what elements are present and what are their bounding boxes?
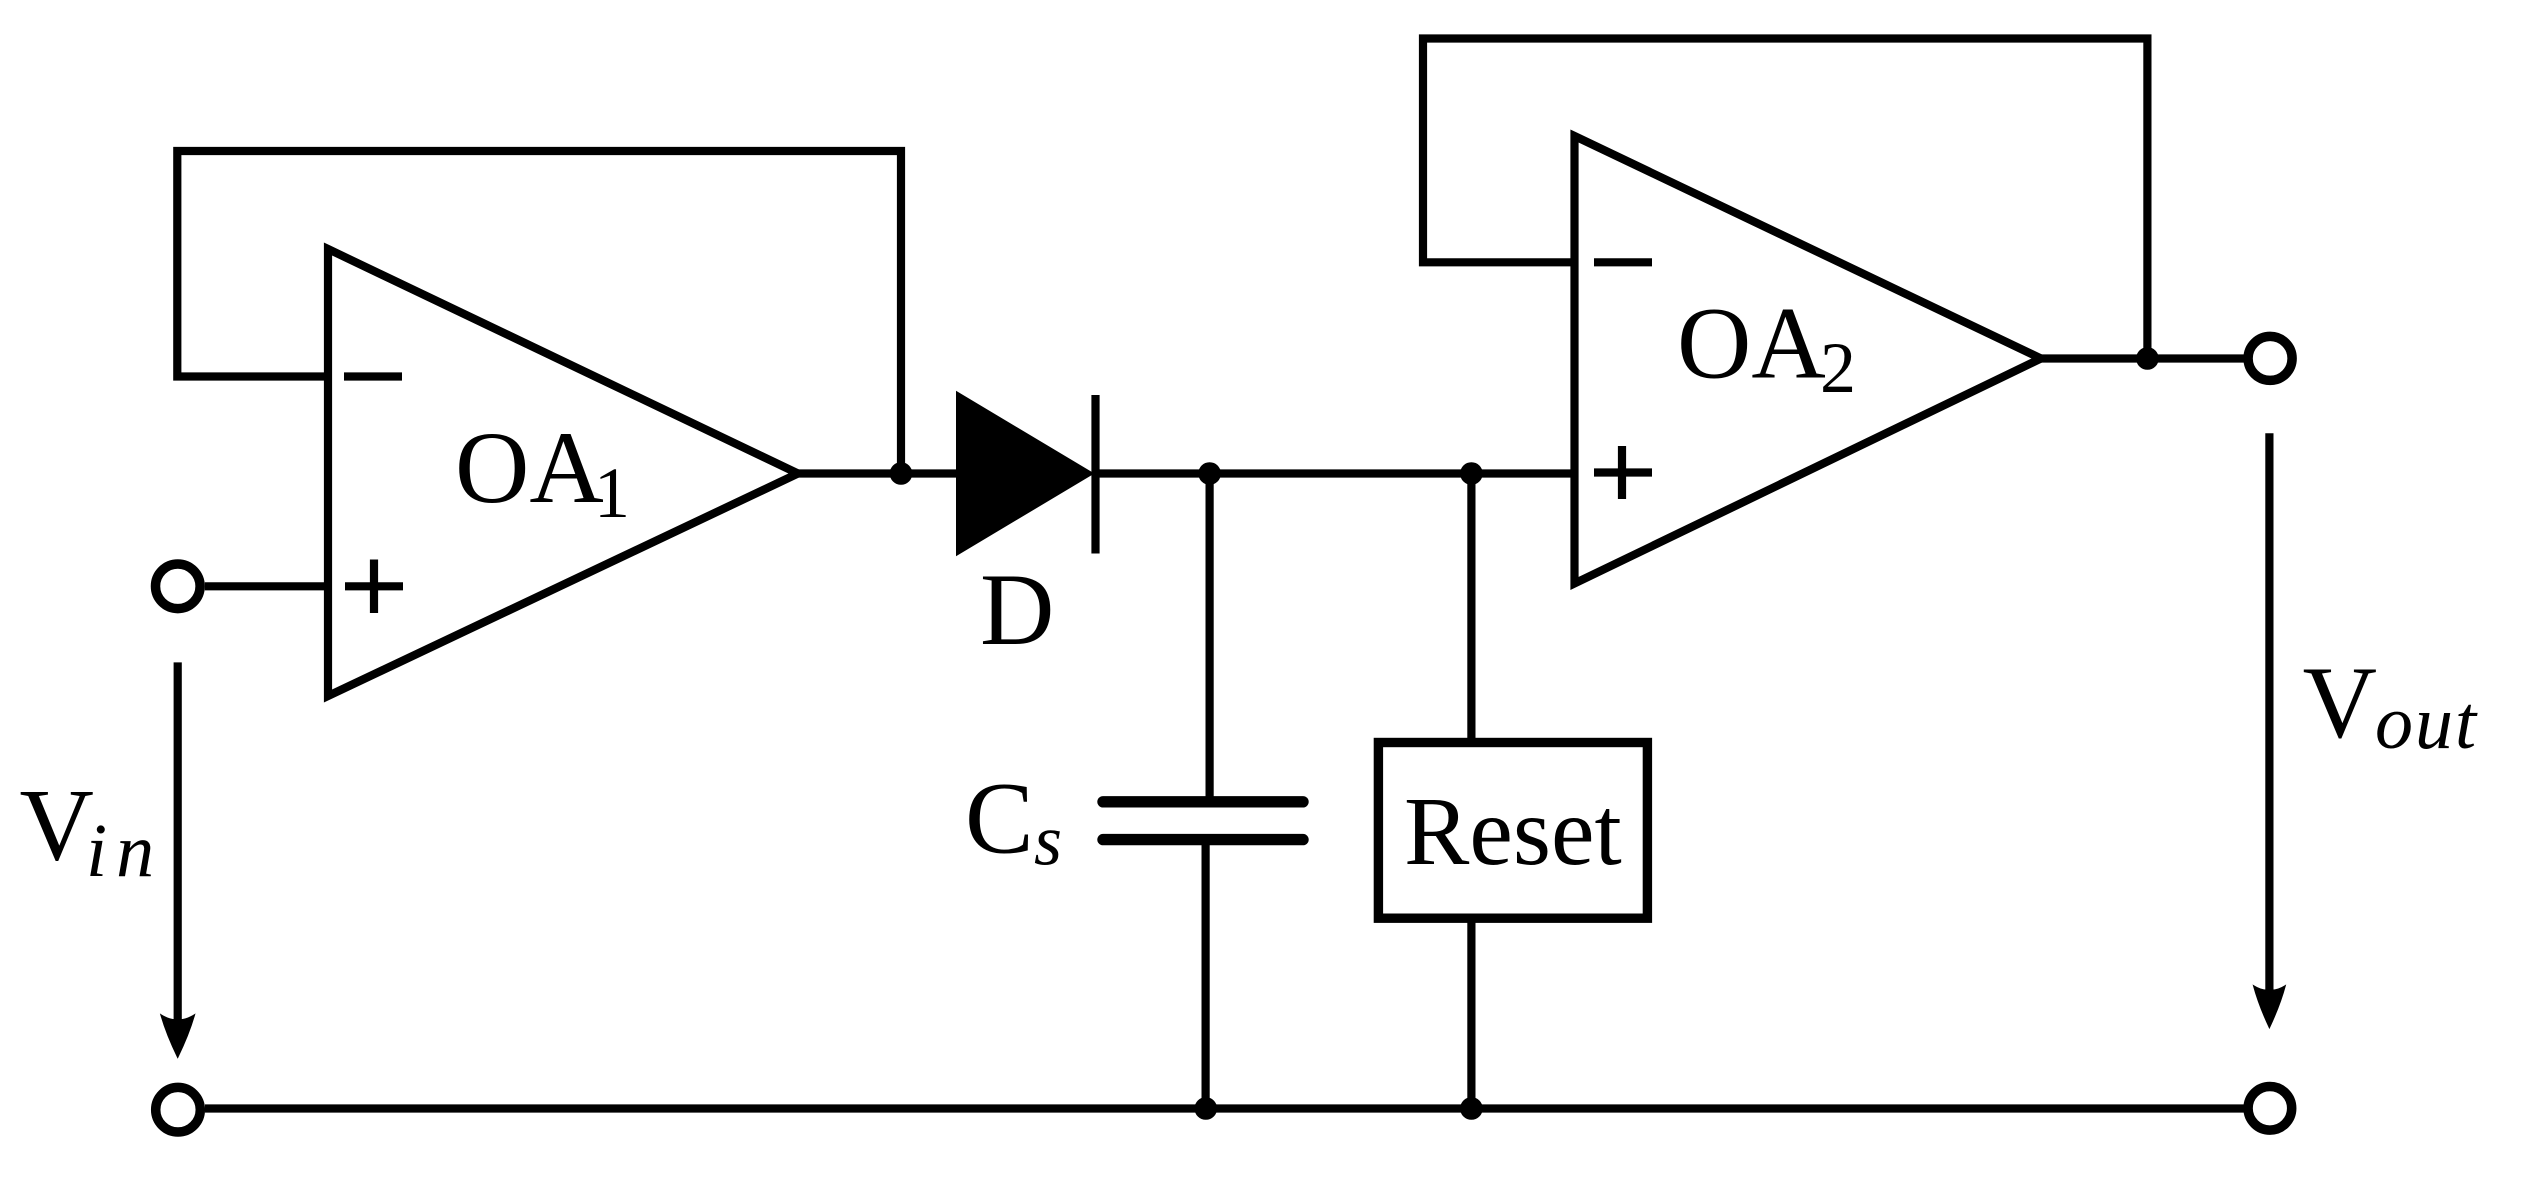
Reset box (1378, 743, 1647, 919)
svg-text:C: C (965, 762, 1034, 876)
svg-text:Reset: Reset (1404, 778, 1622, 886)
op-amp U1 (OA1) triangle (328, 249, 798, 696)
input terminal circle (156, 564, 201, 609)
op-amp U2 (OA2) triangle (1575, 136, 2042, 584)
node B junction (reset tap) (1460, 462, 1483, 485)
wire node B to Reset box (1467, 474, 1475, 743)
bottom rail wire (205, 1104, 2244, 1112)
node A junction (capacitor tap) (1198, 462, 1221, 485)
svg-text:D: D (980, 553, 1054, 667)
V_in arrowhead (161, 1015, 195, 1058)
wire OA2 feedback loop (minus input to output node) (1423, 39, 2147, 359)
svg-text:V: V (20, 769, 94, 883)
bottom-left terminal circle (156, 1087, 201, 1132)
output terminal circle (2248, 336, 2292, 380)
bottom rail junction at capacitor (1195, 1097, 1218, 1120)
svg-text:V: V (2303, 646, 2377, 760)
svg-text:1: 1 (594, 453, 630, 533)
junction U2 output / feedback (2136, 347, 2159, 370)
svg-text:OA: OA (1677, 287, 1826, 401)
op-amp U2 minus sign (1594, 258, 1652, 266)
bottom-right terminal circle (2248, 1087, 2292, 1131)
wire OA1 feedback loop (minus input to output node) (177, 151, 901, 474)
svg-text:s: s (1034, 801, 1062, 881)
op-amp U1 minus sign (344, 372, 402, 380)
wire input terminal to U1 plus input (205, 582, 328, 590)
op-amp U2 plus sign (1594, 446, 1652, 499)
op-amp U1 plus sign (345, 560, 403, 614)
capacitor Cs top plate (1103, 796, 1303, 807)
svg-text:2: 2 (1820, 328, 1856, 408)
diode D cathode bar (1091, 395, 1099, 554)
svg-text:OA: OA (455, 411, 604, 525)
V_out arrowhead (2253, 986, 2285, 1028)
V_out arrow shaft (2265, 433, 2273, 993)
wire U1 output to diode anode (798, 469, 957, 477)
wire U2 output to output terminal (2041, 354, 2248, 362)
capacitor Cs top lead (1205, 474, 1213, 802)
wire diode cathode to U2 plus input (1096, 469, 1575, 477)
capacitor Cs bottom plate (1103, 834, 1303, 845)
svg-text:out: out (2375, 681, 2478, 765)
capacitor Cs bottom lead (1201, 840, 1209, 1109)
svg-text:in: in (86, 809, 163, 893)
bottom rail junction at reset (1460, 1097, 1483, 1120)
V_in arrow shaft (174, 662, 182, 1022)
wire Reset box to bottom rail (1467, 918, 1475, 1108)
diode D triangle (anode) (957, 393, 1093, 555)
junction U1 output / feedback (890, 462, 913, 485)
